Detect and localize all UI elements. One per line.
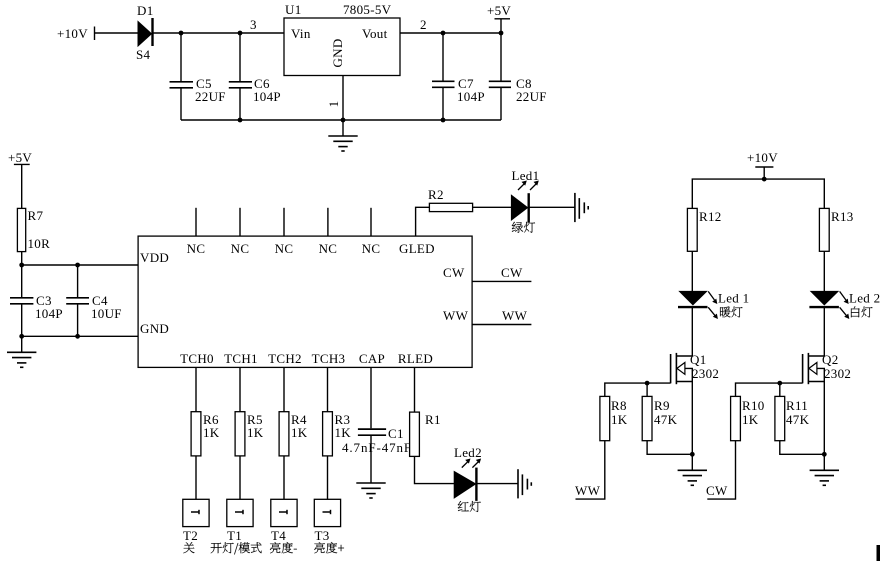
diode D1 (S4) <box>136 3 154 62</box>
label T3 function <box>314 542 344 553</box>
junction dot Q1 source gnd <box>690 452 695 457</box>
wire R8 to WW <box>576 441 605 499</box>
wire R1 to Led2 <box>415 456 455 483</box>
pin NC3 stub <box>275 208 294 256</box>
transistor Q2 2302 <box>803 352 852 384</box>
svg-text:R7: R7 <box>28 208 44 223</box>
svg-text:1K: 1K <box>335 425 352 440</box>
resistor R4 1K <box>279 412 308 456</box>
resistor R12 <box>687 208 721 251</box>
svg-text:2: 2 <box>420 17 427 32</box>
svg-text:4.7nF-47nF: 4.7nF-47nF <box>342 440 412 455</box>
resistor R10 1K <box>731 396 765 440</box>
svg-text:22UF: 22UF <box>195 89 226 104</box>
ground rotated right of Led1 <box>575 193 588 222</box>
svg-text:3: 3 <box>250 17 257 32</box>
svg-text:WW: WW <box>502 308 528 323</box>
IC U1 7805-5V box <box>284 2 400 76</box>
svg-text:U1: U1 <box>285 2 302 17</box>
svg-text:104P: 104P <box>253 89 281 104</box>
wire Led1 to ground <box>529 206 575 208</box>
svg-text:S4: S4 <box>136 47 151 62</box>
junction dot C4 top <box>75 263 80 268</box>
svg-text:2302: 2302 <box>692 366 719 381</box>
svg-text:10R: 10R <box>28 236 51 251</box>
resistor R5 1K <box>235 412 264 456</box>
resistor R1 <box>410 412 441 456</box>
svg-text:T1: T1 <box>227 528 242 543</box>
wire R9 stub <box>646 383 648 396</box>
resistor R13 <box>819 208 853 251</box>
pin NC4 stub <box>319 208 338 256</box>
ground left <box>7 336 36 367</box>
capacitor C3 104P <box>10 265 63 336</box>
pin WW <box>443 308 531 325</box>
wire VDD rail <box>22 264 138 266</box>
wire TCH to R5 <box>239 367 241 411</box>
node +5V top <box>487 3 511 33</box>
wire bottom rail top section <box>181 119 501 121</box>
capacitor C6 104P <box>229 33 281 120</box>
svg-text:GLED: GLED <box>399 241 435 256</box>
svg-text:Led2: Led2 <box>454 445 482 460</box>
junction dot R7/C3 <box>19 263 24 268</box>
svg-text:Vin: Vin <box>291 26 311 41</box>
wire R7 to VDD rail <box>21 252 23 265</box>
svg-text:TCH1: TCH1 <box>224 351 258 366</box>
wire TCH to R3 <box>327 367 329 411</box>
LED Led2 white 白灯 <box>809 291 880 320</box>
svg-text:Q2: Q2 <box>822 352 839 367</box>
junction dot C7 top <box>441 31 446 36</box>
IC main touch controller box <box>138 236 472 367</box>
corner mark <box>877 545 880 561</box>
label T4 function <box>270 542 297 553</box>
capacitor C4 10UF <box>66 265 122 336</box>
wire R4 to pad T4 <box>283 456 285 499</box>
wire R11 to Q2 source gnd <box>780 441 825 455</box>
capacitor C8 22UF <box>489 33 547 120</box>
junction dot +10V rail <box>762 177 767 182</box>
wire Q2 source down <box>823 382 825 455</box>
svg-text:R10: R10 <box>742 398 765 413</box>
svg-text:R9: R9 <box>654 398 670 413</box>
svg-text:R12: R12 <box>699 209 722 224</box>
LED Led1 warm 暖灯 <box>678 291 749 320</box>
svg-text:D1: D1 <box>137 3 154 18</box>
pin NC1 stub <box>187 208 206 256</box>
svg-text:R8: R8 <box>611 398 627 413</box>
svg-text:R1: R1 <box>425 412 441 427</box>
svg-text:1: 1 <box>326 101 341 108</box>
svg-text:R13: R13 <box>831 209 854 224</box>
svg-text:10UF: 10UF <box>91 306 122 321</box>
junction dot C5 top <box>179 31 184 36</box>
node +10V input <box>57 26 95 41</box>
junction dot Q2 source gnd <box>822 452 827 457</box>
svg-text:RLED: RLED <box>398 351 433 366</box>
junction dot C3 bottom <box>19 334 24 339</box>
wire +10V to D1 <box>95 32 139 34</box>
svg-text:+5V: +5V <box>487 3 511 18</box>
wire R12 to warm LED <box>691 251 693 291</box>
svg-text:1K: 1K <box>742 412 759 427</box>
wire R13 to white LED <box>823 251 825 291</box>
wire TCH to R4 <box>283 367 285 411</box>
wire R3 to pad T3 <box>327 456 329 499</box>
svg-text:GND: GND <box>140 321 169 336</box>
svg-text:1K: 1K <box>611 412 628 427</box>
svg-text:Led 1: Led 1 <box>718 291 749 306</box>
svg-text:TCH0: TCH0 <box>180 351 214 366</box>
svg-text:Led1: Led1 <box>512 168 540 183</box>
junction dot R11 top <box>777 381 782 386</box>
svg-text:CW: CW <box>706 483 728 498</box>
wire Led2 to ground <box>476 483 518 485</box>
svg-text:104P: 104P <box>457 89 485 104</box>
resistor R8 1K <box>600 396 628 440</box>
svg-text:NC: NC <box>231 241 250 256</box>
svg-text:CAP: CAP <box>359 351 385 366</box>
svg-text:1K: 1K <box>291 425 308 440</box>
wire R5 to pad T1 <box>239 456 241 499</box>
transistor Q1 2302 <box>671 352 720 384</box>
junction dot C6 bottom <box>238 118 243 123</box>
wire GLED to R2 <box>416 207 430 236</box>
svg-text:T3: T3 <box>315 528 330 543</box>
svg-text:Led 2: Led 2 <box>849 291 880 306</box>
svg-text:NC: NC <box>319 241 338 256</box>
LED Led1 green 绿灯 <box>511 168 539 233</box>
ground rotated right of Led2 <box>518 469 531 498</box>
node +5V left <box>8 150 32 208</box>
svg-text:VDD: VDD <box>140 250 169 265</box>
svg-text:CW: CW <box>501 265 523 280</box>
wire R9 to Q1 source gnd <box>647 441 692 455</box>
svg-text:NC: NC <box>362 241 381 256</box>
wire GND rail left <box>22 335 138 337</box>
wire white LED to Q2 drain <box>823 307 825 356</box>
svg-text:1K: 1K <box>203 425 220 440</box>
ground U1 <box>328 120 357 151</box>
svg-text:1K: 1K <box>247 425 264 440</box>
pin CW <box>443 265 531 281</box>
svg-text:TCH3: TCH3 <box>312 351 346 366</box>
wire warm LED to Q1 drain <box>691 307 693 356</box>
junction dot C6 top <box>238 31 243 36</box>
wire R6 to pad T2 <box>195 456 197 499</box>
node +10V right <box>747 150 778 179</box>
resistor R3 1K <box>323 412 352 456</box>
svg-text:WW: WW <box>575 483 601 498</box>
wire R11 stub <box>779 383 781 396</box>
junction dot C8 top <box>499 31 504 36</box>
junction dot U1 gnd bottom <box>341 118 346 123</box>
pin NC5 stub <box>362 208 381 256</box>
resistor R2 <box>428 187 473 212</box>
svg-text:Vout: Vout <box>362 26 388 41</box>
wire Q1 gate rail <box>605 383 671 396</box>
svg-text:C1: C1 <box>388 426 404 441</box>
svg-text:47K: 47K <box>786 412 810 427</box>
svg-text:R2: R2 <box>428 187 444 202</box>
resistor R6 1K <box>191 412 220 456</box>
capacitor C5 22UF <box>170 33 226 120</box>
svg-text:22UF: 22UF <box>516 89 547 104</box>
svg-text:7805-5V: 7805-5V <box>343 2 392 17</box>
svg-text:+10V: +10V <box>57 26 88 41</box>
LED Led2 red 红灯 <box>454 445 482 512</box>
touch pad T2 <box>183 499 209 543</box>
svg-text:WW: WW <box>443 308 469 323</box>
touch pad T4 <box>271 499 297 543</box>
wire RLED to R1 <box>414 367 416 412</box>
touch pad T3 <box>314 499 340 543</box>
svg-text:Q1: Q1 <box>690 352 707 367</box>
svg-text:47K: 47K <box>654 412 678 427</box>
ground Q1 <box>678 454 707 485</box>
svg-text:R11: R11 <box>786 398 808 413</box>
capacitor C1 4.7nF-47nF <box>342 426 412 483</box>
svg-text:T4: T4 <box>271 528 286 543</box>
wire U1 Vout pin2 <box>400 32 501 34</box>
svg-text:CW: CW <box>443 265 465 280</box>
svg-text:+10V: +10V <box>747 150 778 165</box>
junction dot R9 top <box>645 381 650 386</box>
svg-text:GND: GND <box>330 38 345 67</box>
wire U1 GND pin1 <box>326 76 343 121</box>
wire D1 to U1 Vin <box>153 32 285 34</box>
svg-text:NC: NC <box>187 241 206 256</box>
junction dot C4 bottom <box>75 334 80 339</box>
label T2 function <box>183 542 194 553</box>
svg-text:+5V: +5V <box>8 150 32 165</box>
ground Q2 <box>810 454 839 485</box>
resistor R7 10R <box>17 208 50 252</box>
wire TCH to R6 <box>195 367 197 411</box>
svg-text:2302: 2302 <box>824 366 851 381</box>
label T1 function <box>211 542 262 554</box>
wire +10V rail <box>692 179 824 208</box>
svg-text:NC: NC <box>275 241 294 256</box>
svg-text:T2: T2 <box>183 528 198 543</box>
junction dot C7 bottom <box>441 118 446 123</box>
pin NC2 stub <box>231 208 250 256</box>
wire CAP to C1 <box>370 367 372 428</box>
touch pad T1 <box>227 499 253 543</box>
wire R2 to Led1 <box>473 206 512 208</box>
ground C1 <box>356 483 385 498</box>
resistor R11 47K <box>775 396 810 440</box>
resistor R9 47K <box>642 396 677 440</box>
wire Q1 source down <box>691 382 693 455</box>
wire Q2 gate rail <box>736 383 803 396</box>
wire R10 to CW <box>707 441 735 499</box>
svg-text:TCH2: TCH2 <box>268 351 302 366</box>
svg-text:104P: 104P <box>35 306 63 321</box>
capacitor C7 104P <box>432 33 485 120</box>
